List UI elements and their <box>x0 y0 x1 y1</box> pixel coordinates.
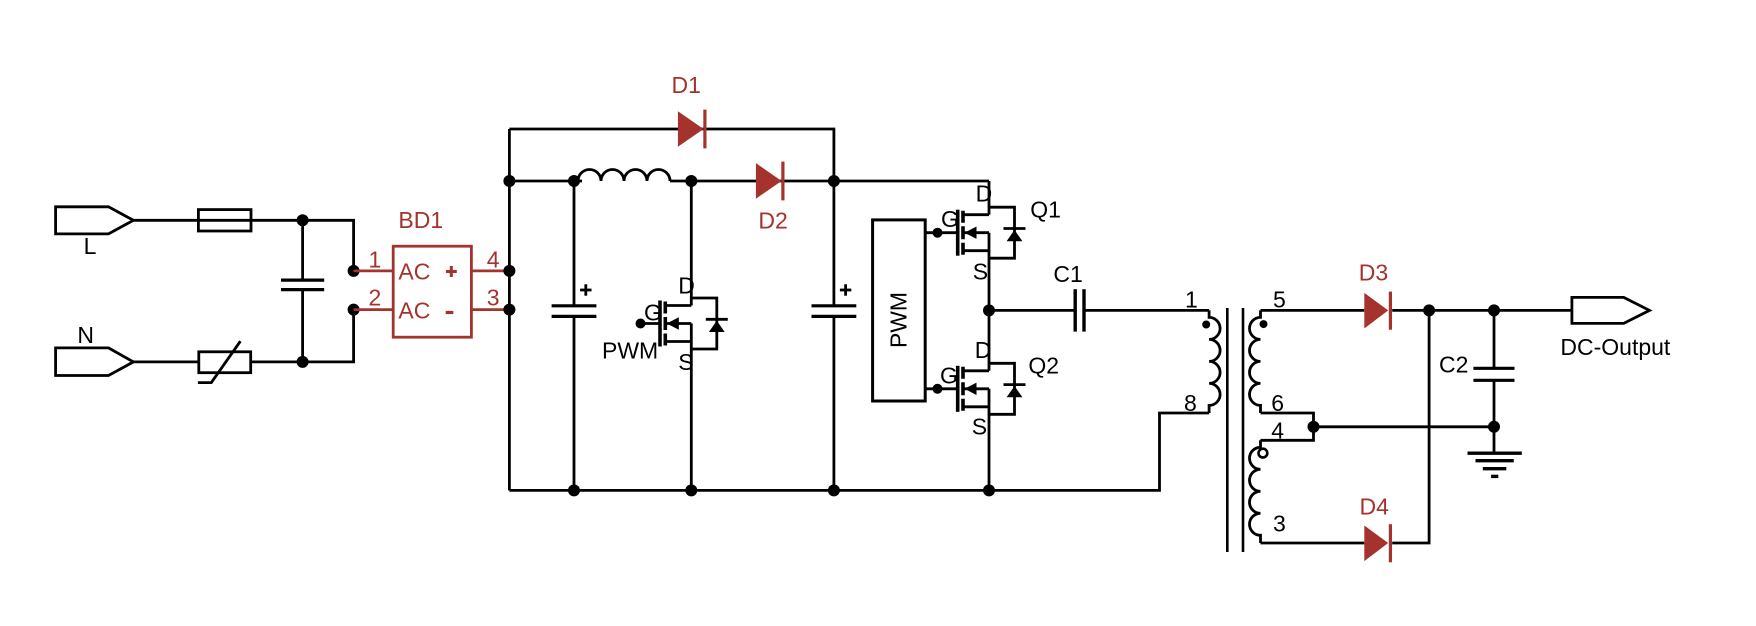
input connector N <box>56 348 134 376</box>
label Q2 <box>1028 353 1059 379</box>
junction D3 D4 <box>1423 304 1435 316</box>
mosfet PFC switch <box>660 181 728 490</box>
svg-text:1: 1 <box>1185 286 1198 312</box>
svg-text:S: S <box>973 258 988 284</box>
inductor L1 <box>578 170 670 182</box>
svg-text:G: G <box>940 362 958 388</box>
diode D1 <box>678 110 705 149</box>
svg-text:D: D <box>976 181 993 207</box>
svg-text:D: D <box>975 337 992 363</box>
label pin 3 <box>1273 511 1286 537</box>
svg-text:BD1: BD1 <box>398 207 443 233</box>
label Q1 <box>1030 197 1061 223</box>
svg-text:3: 3 <box>487 284 500 310</box>
primary phase dot <box>1202 321 1210 329</box>
svg-text:8: 8 <box>1184 390 1197 416</box>
label S pfc <box>678 349 693 375</box>
svg-text:S: S <box>972 414 987 440</box>
junction C2 bottom <box>1488 421 1500 433</box>
junction rail2 mosfet <box>685 175 697 187</box>
label G pfc <box>644 300 662 326</box>
wire D3 to output <box>1392 309 1572 312</box>
Q2 gate wire <box>925 384 958 394</box>
BD1 pin wire 2 <box>354 308 394 311</box>
input connector L <box>56 207 134 234</box>
transistor Q1 <box>958 181 1026 310</box>
SECTION: input <box>56 207 360 383</box>
capacitor C2 <box>1473 310 1514 426</box>
svg-text:3: 3 <box>1273 511 1286 537</box>
svg-text:D2: D2 <box>758 208 787 234</box>
junction center tap <box>1308 421 1320 433</box>
wire center tap to C2 ground <box>1314 425 1495 428</box>
label D pfc <box>678 273 695 299</box>
label S Q1 <box>973 258 988 284</box>
label pin 1 <box>1185 286 1198 312</box>
SECTION: bridge <box>354 207 510 337</box>
label D Q2 <box>975 337 992 363</box>
wire left rail <box>508 129 511 490</box>
junction N-CX <box>297 356 309 368</box>
wire bottom rail <box>509 413 1209 490</box>
capacitor C1 <box>1075 289 1084 331</box>
svg-text:PWM: PWM <box>886 292 912 348</box>
wire L to fuse to BD1 pin1 <box>133 220 353 271</box>
label D2 <box>758 208 787 234</box>
wire pin3 to D4 <box>1261 542 1365 545</box>
label G Q1 <box>941 206 959 232</box>
svg-text:N: N <box>77 322 94 348</box>
junction bottom cap1 <box>568 484 580 496</box>
svg-text:DC-Output: DC-Output <box>1560 334 1671 360</box>
SECTION: transformer <box>1184 286 1494 552</box>
label PWM rotated <box>886 292 912 348</box>
transformer secondary winding pins 5-6 <box>1250 310 1261 413</box>
transformer secondary winding pins 4-3 <box>1250 440 1261 543</box>
junction BD1 pin4 rail <box>503 265 515 277</box>
label PWM pfc <box>602 338 658 364</box>
junction bottom mosfet <box>685 484 697 496</box>
label D4 <box>1360 494 1390 520</box>
BD1 pin label 4 <box>487 246 500 272</box>
wire N to varistor <box>133 360 198 363</box>
BD1 pin wire 3 <box>471 308 509 311</box>
svg-text:4: 4 <box>487 246 500 272</box>
svg-text:C1: C1 <box>1053 261 1082 287</box>
svg-text:2: 2 <box>369 284 382 310</box>
svg-text:5: 5 <box>1273 286 1286 312</box>
Q1 gate wire <box>925 228 958 238</box>
junction BD1 pin3 rail <box>503 304 515 316</box>
svg-text:D4: D4 <box>1360 494 1390 520</box>
fuse F1 <box>198 210 251 231</box>
wire D4 up to output junction <box>1392 310 1429 543</box>
svg-text:D: D <box>678 273 695 299</box>
junction bottom cap2 <box>828 484 840 496</box>
BD1 pin label 3 <box>487 284 500 310</box>
junction rail2 cap1 <box>568 175 580 187</box>
label N <box>77 322 94 348</box>
diode D4 <box>1364 524 1390 562</box>
wire varistor to BD1 pin2 <box>251 310 354 362</box>
wire mid node to C1 <box>989 309 1075 312</box>
label AC - <box>398 297 453 323</box>
capacitor bulk 1 <box>552 181 597 490</box>
wire rail2 left <box>509 180 582 183</box>
PWM controller box <box>873 220 926 401</box>
label D Q1 <box>976 181 993 207</box>
BD1 pin label 1 <box>369 246 382 272</box>
svg-text:L: L <box>84 233 97 259</box>
svg-text:C2: C2 <box>1439 352 1468 378</box>
svg-text:Q2: Q2 <box>1028 353 1059 379</box>
wire top rail <box>509 129 834 181</box>
secondary phase dot <box>1260 320 1268 328</box>
diode D3 <box>1364 292 1390 330</box>
svg-text:PWM: PWM <box>602 338 658 364</box>
label pin 5 <box>1273 286 1286 312</box>
mosfet gate wire PWM <box>636 319 661 329</box>
svg-text:AC: AC <box>398 259 430 285</box>
label D1 <box>672 72 701 98</box>
label G Q2 <box>940 362 958 388</box>
transformer core <box>1227 308 1243 552</box>
svg-text:D3: D3 <box>1359 260 1388 286</box>
label pin 8 <box>1184 390 1197 416</box>
output connector DC <box>1572 297 1650 323</box>
SECTION: boost <box>503 72 1209 496</box>
transformer T1 primary winding pins 1-8 <box>1209 310 1220 413</box>
SECTION: halfbridge <box>873 181 1210 491</box>
label L <box>84 233 97 259</box>
svg-text:Q1: Q1 <box>1030 197 1061 223</box>
label BD1 <box>398 207 443 233</box>
junction BD1 pin1 <box>348 265 360 277</box>
secondary2 phase circle <box>1259 449 1268 458</box>
diode D2 <box>756 162 783 201</box>
svg-text:D1: D1 <box>672 72 701 98</box>
label C1 <box>1053 261 1082 287</box>
svg-text:AC: AC <box>398 297 430 323</box>
junction left rail rail2 <box>503 175 515 187</box>
junction C2 top <box>1488 304 1500 316</box>
label pin 6 <box>1271 390 1284 416</box>
BD1 pin label 2 <box>369 284 382 310</box>
svg-text:G: G <box>644 300 662 326</box>
label D3 <box>1359 260 1388 286</box>
junction L-CX <box>297 214 309 226</box>
label pin 4 <box>1271 418 1284 444</box>
label S Q2 <box>972 414 987 440</box>
wire C1 to transformer pin1 <box>1084 309 1209 312</box>
wire pin5 to D3 <box>1261 309 1365 312</box>
svg-text:G: G <box>941 206 959 232</box>
label AC + <box>398 259 456 285</box>
wire center tap pins 6-4 <box>1261 413 1314 440</box>
bridge rectifier BD1 <box>393 246 471 337</box>
BD1 pin wire 4 <box>471 269 509 272</box>
capacitor CX input filter <box>281 220 324 362</box>
junction mid node <box>983 304 995 316</box>
svg-text:1: 1 <box>369 246 382 272</box>
wire rail2 right <box>670 180 989 183</box>
capacitor bulk 2 <box>812 181 857 490</box>
varistor RV1 <box>198 341 251 382</box>
junction bottom Q2 <box>983 484 995 496</box>
label C2 <box>1439 352 1468 378</box>
junction BD1 pin2 <box>348 304 360 316</box>
label DC-Output <box>1560 334 1671 360</box>
SECTION: output <box>1261 260 1671 563</box>
BD1 pin wire 1 <box>354 269 394 272</box>
svg-text:S: S <box>678 349 693 375</box>
transistor Q2 <box>958 310 1026 490</box>
junction rail2 cap2 <box>828 175 840 187</box>
ground <box>1468 427 1522 477</box>
